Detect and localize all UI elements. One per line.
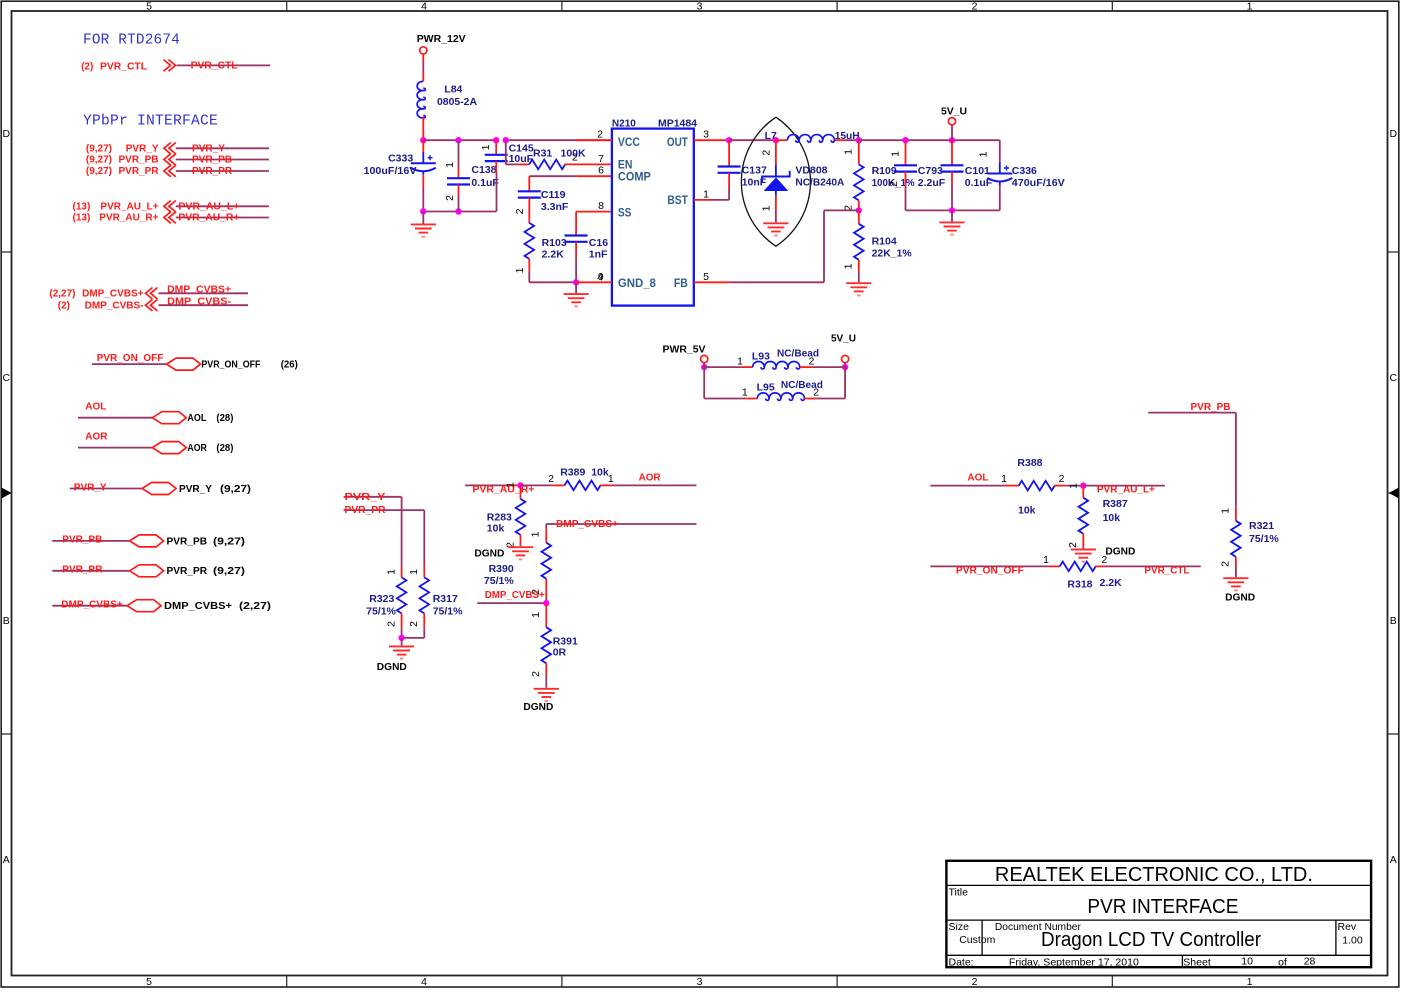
svg-text:PVR INTERFACE: PVR INTERFACE	[1087, 896, 1238, 918]
svg-text:4: 4	[421, 976, 427, 988]
svg-text:R103: R103	[542, 237, 567, 249]
svg-text:Size: Size	[949, 921, 970, 933]
wire	[528, 271, 530, 283]
junction	[573, 279, 579, 285]
svg-text:2: 2	[444, 195, 456, 201]
wire FB feedback	[694, 281, 729, 283]
BST stub	[694, 199, 712, 201]
svg-text:2: 2	[548, 473, 554, 485]
svg-text:5V_U: 5V_U	[831, 333, 856, 345]
wire DMP_CVBS+	[159, 292, 249, 294]
wire PVR_Y	[344, 496, 402, 498]
svg-text:YPbPr INTERFACE: YPbPr INTERFACE	[83, 113, 218, 130]
capacitor C333 symbol	[411, 152, 436, 175]
ground	[763, 223, 788, 235]
svg-text:PVR_PB: PVR_PB	[192, 155, 232, 166]
resistor R283	[520, 485, 522, 499]
svg-text:22K_1%: 22K_1%	[872, 248, 913, 260]
svg-text:SS: SS	[618, 206, 632, 220]
svg-text:(28): (28)	[216, 412, 233, 424]
junction	[902, 137, 908, 143]
svg-text:(2): (2)	[81, 62, 93, 73]
svg-text:(9,27): (9,27)	[213, 565, 245, 577]
wire DMP_CVBS+	[546, 523, 696, 525]
svg-text:MP1484: MP1484	[658, 117, 697, 129]
wire PVR_ON_OFF	[92, 363, 167, 365]
svg-text:DMP_CVBS-: DMP_CVBS-	[167, 297, 231, 308]
inductor L93	[704, 366, 741, 368]
svg-text:1: 1	[505, 482, 517, 488]
svg-text:PVR_Y: PVR_Y	[192, 143, 225, 154]
svg-text:2: 2	[972, 976, 978, 988]
svg-text:NC/Bead: NC/Bead	[781, 379, 823, 391]
svg-text:0.1uF: 0.1uF	[471, 177, 499, 189]
svg-text:1.00: 1.00	[1342, 935, 1363, 947]
svg-text:0R: 0R	[553, 647, 567, 659]
svg-text:AOL: AOL	[187, 412, 206, 424]
svg-text:PVR_CTL: PVR_CTL	[191, 61, 238, 72]
capacitor C793 symbol	[894, 165, 917, 171]
svg-text:FB: FB	[674, 276, 688, 290]
wire DMP_CVBS+	[477, 602, 546, 604]
junction	[726, 137, 732, 143]
pin 2 stub	[576, 139, 612, 141]
svg-text:L84: L84	[444, 84, 462, 96]
svg-text:5: 5	[146, 976, 152, 988]
capacitor C137	[728, 140, 730, 166]
IC N210 MP1484	[612, 129, 694, 306]
svg-text:PVR_AU_R+: PVR_AU_R+	[99, 213, 158, 224]
svg-text:1: 1	[1247, 976, 1253, 988]
capacitor C138 symbol	[447, 178, 470, 184]
svg-text:R31: R31	[533, 148, 552, 160]
wire	[422, 73, 424, 81]
svg-text:1: 1	[843, 149, 855, 155]
svg-text:PVR_AU_L+: PVR_AU_L+	[100, 202, 158, 213]
wire AOL	[930, 485, 1004, 487]
svg-text:(26): (26)	[281, 359, 298, 371]
svg-text:(28): (28)	[216, 442, 233, 454]
capacitor C101 symbol	[941, 165, 964, 171]
svg-text:VCC: VCC	[618, 135, 640, 149]
svg-text:C793: C793	[918, 165, 943, 177]
svg-text:DMP_CVBS+: DMP_CVBS+	[556, 519, 618, 530]
resistor R321	[1235, 507, 1237, 521]
ground DGND	[1071, 550, 1096, 562]
svg-text:REALTEK ELECTRONIC CO., LTD: REALTEK ELECTRONIC CO., LTD.	[995, 864, 1313, 886]
resistor R388 symbol	[1019, 481, 1055, 491]
title block	[946, 861, 1371, 967]
svg-text:PWR_12V: PWR_12V	[417, 33, 466, 45]
svg-text:Title: Title	[949, 887, 969, 899]
ground DGND	[389, 646, 414, 658]
svg-text:(13): (13)	[73, 202, 91, 213]
svg-text:DMP_CVBS+: DMP_CVBS+	[485, 590, 545, 601]
svg-text:DGND: DGND	[523, 701, 553, 713]
wire PVR_ON_OFF	[930, 565, 1049, 567]
junction	[455, 137, 461, 143]
svg-text:D: D	[1390, 128, 1398, 140]
svg-text:C: C	[1390, 372, 1398, 384]
svg-text:PVR_Y: PVR_Y	[179, 483, 212, 495]
capacitor C16 symbol	[565, 236, 588, 242]
off-page connector PVR_AU_R+	[164, 212, 176, 224]
port PVR_Y	[142, 483, 176, 495]
svg-text:7: 7	[598, 153, 604, 165]
wire	[401, 638, 403, 646]
svg-text:AOR: AOR	[639, 472, 662, 483]
svg-text:100uF/16V: 100uF/16V	[364, 165, 417, 177]
svg-text:(9,27): (9,27)	[86, 155, 112, 166]
DNP lens mark	[741, 117, 810, 246]
svg-text:FOR RTD2674: FOR RTD2674	[83, 32, 180, 49]
svg-text:3: 3	[703, 129, 709, 141]
svg-text:2.2K: 2.2K	[1100, 577, 1123, 589]
svg-text:PVR_AU_L+: PVR_AU_L+	[1097, 485, 1155, 496]
capacitor C101	[951, 140, 953, 165]
junction	[949, 207, 955, 213]
wire	[422, 117, 424, 141]
resistor R318	[1050, 565, 1060, 567]
junction	[949, 137, 955, 143]
wire PVR_PB	[176, 159, 269, 161]
svg-text:C: C	[3, 372, 11, 384]
wire PVR_CTL	[1106, 565, 1201, 567]
svg-text:1: 1	[514, 267, 526, 273]
ground	[846, 283, 871, 295]
svg-text:2: 2	[514, 208, 526, 214]
svg-text:COMP: COMP	[618, 170, 651, 184]
port DMP_CVBS+	[127, 600, 161, 612]
wire DMP_CVBS+	[52, 605, 127, 607]
inductor L95 symbol	[757, 393, 804, 401]
svg-text:5: 5	[146, 1, 152, 13]
svg-text:2: 2	[972, 1, 978, 13]
port PVR_PR	[130, 565, 164, 577]
svg-text:PVR_Y: PVR_Y	[345, 492, 386, 503]
svg-text:PVR_PR: PVR_PR	[345, 505, 387, 516]
svg-text:PVR_ON_OFF: PVR_ON_OFF	[97, 353, 164, 364]
svg-text:R318: R318	[1067, 578, 1092, 590]
svg-text:1: 1	[530, 531, 542, 537]
svg-text:R317: R317	[433, 593, 458, 605]
svg-text:10k: 10k	[591, 467, 609, 479]
wire PVR_PR	[52, 570, 129, 572]
svg-text:(9,27): (9,27)	[86, 144, 112, 155]
off-page connector PVR_Y	[164, 143, 176, 155]
svg-text:1nF: 1nF	[589, 249, 608, 261]
svg-text:B: B	[1390, 615, 1397, 627]
svg-text:Date:: Date:	[949, 957, 974, 969]
svg-text:R104: R104	[872, 235, 897, 247]
wire	[1235, 413, 1237, 507]
svg-text:2: 2	[385, 621, 397, 627]
wire	[951, 210, 953, 221]
svg-text:DGND: DGND	[377, 661, 407, 673]
diode VD808 NC/B240A	[775, 141, 777, 165]
svg-text:1: 1	[1068, 483, 1080, 489]
svg-text:Custom: Custom	[959, 934, 995, 946]
wire PVR_PB	[1148, 412, 1236, 414]
capacitor C793	[905, 140, 907, 165]
svg-text:1: 1	[1247, 1, 1253, 13]
GND_8 pin stub	[576, 281, 612, 283]
capacitor C333	[422, 140, 424, 152]
wire	[703, 367, 705, 398]
junction	[455, 208, 461, 214]
svg-text:DMP_CVBS+: DMP_CVBS+	[61, 600, 123, 611]
junction	[856, 207, 862, 213]
svg-text:DGND: DGND	[1225, 592, 1255, 604]
wire gnd bus	[423, 211, 496, 213]
svg-text:PVR_Y: PVR_Y	[126, 144, 159, 155]
svg-text:1: 1	[737, 355, 743, 367]
wire	[401, 497, 403, 567]
svg-text:2: 2	[760, 150, 772, 156]
wire AOR	[612, 484, 697, 486]
resistor R390 symbol	[542, 543, 552, 579]
wire DMP_CVBS-	[159, 304, 249, 306]
resistor R104	[858, 210, 860, 223]
wire	[496, 172, 498, 212]
svg-text:2: 2	[572, 152, 578, 164]
svg-text:DGND: DGND	[1105, 546, 1135, 558]
svg-text:PVR_PB: PVR_PB	[62, 535, 102, 546]
off-page connector PVR_PR	[164, 165, 176, 177]
resistor R391	[545, 603, 547, 627]
capacitor C137 symbol	[718, 167, 741, 173]
svg-text:470uF/16V: 470uF/16V	[1012, 177, 1065, 189]
wire	[505, 140, 507, 164]
svg-text:AOL: AOL	[85, 402, 106, 413]
svg-text:R388: R388	[1017, 457, 1042, 469]
junction	[543, 600, 549, 606]
port PVR_PB	[130, 535, 164, 547]
svg-text:PVR_CTL: PVR_CTL	[1144, 565, 1189, 576]
svg-text:10k: 10k	[487, 523, 505, 535]
off-page connector DMP_CVBS-	[146, 299, 158, 311]
svg-text:B: B	[3, 615, 10, 627]
resistor R387 symbol	[1079, 498, 1089, 534]
wire PVR_PR	[344, 509, 425, 511]
svg-text:BST: BST	[667, 193, 688, 207]
resistor R31 symbol	[529, 160, 565, 170]
svg-text:(2,27): (2,27)	[239, 600, 271, 612]
svg-text:AOL: AOL	[967, 473, 988, 484]
svg-text:L93: L93	[752, 350, 770, 362]
port PVR_ON_OFF	[167, 358, 201, 370]
svg-text:Friday, September 17, 2010: Friday, September 17, 2010	[1009, 957, 1139, 969]
svg-text:Rev: Rev	[1338, 921, 1357, 933]
svg-text:2: 2	[530, 671, 542, 677]
svg-text:2: 2	[888, 181, 900, 187]
resistor R109 symbol	[854, 164, 864, 200]
wire PVR_AU_R+	[176, 217, 269, 219]
svg-text:GND_8: GND_8	[618, 276, 656, 290]
ground DGND	[1223, 578, 1248, 590]
svg-text:1: 1	[760, 205, 772, 211]
svg-text:DMP_CVBS+: DMP_CVBS+	[82, 289, 144, 300]
svg-text:10: 10	[1241, 956, 1253, 968]
svg-text:PVR_PR: PVR_PR	[62, 565, 103, 576]
wire PVR_Y	[176, 147, 269, 149]
svg-text:C336: C336	[1012, 165, 1037, 177]
resistor R317	[423, 567, 425, 578]
capacitor C119	[576, 175, 612, 177]
svg-text:Dragon LCD TV Controller: Dragon LCD TV Controller	[1041, 929, 1261, 951]
svg-text:1: 1	[889, 151, 901, 157]
wire PVR_PB	[52, 540, 129, 542]
svg-text:R321: R321	[1249, 520, 1274, 532]
wire PVR_CTL	[177, 64, 271, 66]
svg-text:(9,27): (9,27)	[86, 166, 112, 177]
svg-text:L7: L7	[765, 130, 777, 142]
wire PVR_AU_R+	[465, 484, 506, 486]
svg-text:2: 2	[1067, 542, 1079, 548]
svg-text:2: 2	[1220, 561, 1232, 567]
svg-text:2: 2	[408, 621, 420, 627]
svg-text:Sheet: Sheet	[1183, 957, 1211, 969]
resistor R389	[521, 484, 552, 486]
wire PVR_AU_L+	[176, 205, 269, 207]
svg-text:1: 1	[480, 144, 492, 150]
svg-text:A: A	[1390, 854, 1397, 866]
svg-text:PVR_AU_L+: PVR_AU_L+	[178, 201, 239, 212]
capacitor C145 symbol	[485, 155, 508, 161]
wire	[844, 367, 846, 398]
svg-text:AOR: AOR	[187, 442, 207, 454]
resistor R387	[1082, 486, 1084, 498]
svg-text:5V_U: 5V_U	[941, 106, 967, 118]
svg-text:PVR_ON_OFF: PVR_ON_OFF	[201, 359, 260, 371]
svg-text:OUT: OUT	[667, 135, 689, 149]
svg-text:4: 4	[421, 1, 427, 13]
svg-text:NC/B240A: NC/B240A	[795, 177, 844, 189]
capacitor C336	[999, 140, 1001, 162]
svg-text:VD808: VD808	[795, 164, 827, 176]
svg-text:PVR_PR: PVR_PR	[192, 166, 233, 177]
svg-text:2: 2	[1101, 554, 1107, 566]
svg-text:R387: R387	[1103, 498, 1128, 510]
junction	[773, 137, 779, 143]
wire OUT node	[694, 139, 729, 141]
inductor L7	[776, 139, 788, 141]
svg-text:PVR_PR: PVR_PR	[167, 565, 208, 577]
resistor R317 symbol	[419, 577, 429, 613]
capacitor C145	[495, 140, 497, 155]
svg-text:3: 3	[697, 976, 703, 988]
junction	[842, 364, 848, 370]
junction	[1080, 482, 1086, 488]
svg-text:R109: R109	[872, 165, 897, 177]
svg-text:1: 1	[408, 569, 420, 575]
wire AOL	[78, 417, 152, 419]
svg-text:C119: C119	[541, 189, 566, 201]
svg-text:1: 1	[385, 569, 397, 575]
svg-text:10k: 10k	[1018, 505, 1036, 517]
junction	[701, 364, 707, 370]
inductor L84	[417, 81, 425, 118]
svg-text:1: 1	[703, 188, 709, 200]
svg-text:PVR_PB: PVR_PB	[118, 155, 158, 166]
svg-text:(2,27): (2,27)	[49, 289, 75, 300]
svg-text:10k: 10k	[1103, 512, 1121, 524]
svg-text:AOR: AOR	[85, 432, 108, 443]
off-page connector PVR_PB	[164, 154, 176, 166]
svg-text:(2): (2)	[58, 300, 70, 311]
svg-text:DMP_CVBS+: DMP_CVBS+	[164, 600, 232, 612]
svg-text:1: 1	[1220, 508, 1232, 514]
svg-text:PVR_Y: PVR_Y	[74, 482, 107, 493]
port AOL	[152, 412, 186, 424]
resistor R391 symbol	[542, 627, 552, 663]
svg-text:3.3nF: 3.3nF	[541, 201, 569, 213]
port AOR	[152, 442, 186, 454]
svg-text:DGND: DGND	[474, 548, 504, 560]
svg-text:75/1%: 75/1%	[484, 575, 514, 587]
svg-text:PVR_PB: PVR_PB	[167, 535, 208, 547]
junction	[493, 137, 499, 143]
off-page connector DMP_CVBS+	[146, 288, 158, 300]
svg-text:DMP_CVBS-: DMP_CVBS-	[85, 300, 144, 311]
ground	[939, 222, 964, 234]
svg-text:75/1%: 75/1%	[366, 605, 396, 617]
junction	[398, 635, 404, 641]
svg-text:75/1%: 75/1%	[433, 605, 463, 617]
capacitor C138	[458, 140, 460, 167]
svg-text:PVR_PR: PVR_PR	[118, 166, 159, 177]
resistor R104 symbol	[854, 224, 864, 260]
svg-text:8: 8	[598, 200, 604, 212]
junction	[503, 137, 509, 143]
wire	[575, 282, 577, 293]
off-page connector PVR_AU_L+	[164, 201, 176, 213]
resistor R103	[525, 223, 535, 259]
ground	[564, 294, 589, 306]
svg-text:C137: C137	[742, 164, 767, 176]
resistor R109	[858, 140, 860, 164]
svg-text:C101: C101	[965, 165, 990, 177]
wire 5V_U bus	[859, 139, 1000, 141]
svg-text:(13): (13)	[73, 213, 91, 224]
resistor R318 symbol	[1060, 562, 1096, 572]
junction	[420, 208, 426, 214]
wire VCC bus	[423, 139, 496, 141]
svg-text:D: D	[3, 128, 11, 140]
svg-text:DMP_CVBS+: DMP_CVBS+	[167, 285, 231, 296]
svg-text:L95: L95	[757, 382, 775, 394]
svg-text:(9,27): (9,27)	[213, 535, 245, 547]
svg-text:28: 28	[1304, 956, 1316, 968]
ground DGND	[508, 547, 533, 559]
resistor R323 symbol	[397, 577, 407, 613]
svg-text:0805-2A: 0805-2A	[437, 96, 477, 108]
svg-text:1: 1	[1043, 554, 1049, 566]
svg-text:1: 1	[742, 387, 748, 399]
svg-text:NC/Bead: NC/Bead	[777, 347, 819, 359]
svg-text:PVR_CTL: PVR_CTL	[100, 62, 147, 73]
resistor R389 symbol	[565, 481, 601, 491]
svg-text:PVR_PB: PVR_PB	[1191, 402, 1231, 413]
wire PVR_Y	[70, 488, 142, 490]
svg-text:R323: R323	[369, 593, 394, 605]
svg-text:1: 1	[978, 151, 990, 157]
svg-text:1: 1	[444, 162, 456, 168]
svg-text:2: 2	[597, 129, 603, 141]
wire AOR	[78, 447, 152, 449]
svg-text:C16: C16	[589, 237, 608, 249]
resistor R323	[401, 567, 403, 578]
